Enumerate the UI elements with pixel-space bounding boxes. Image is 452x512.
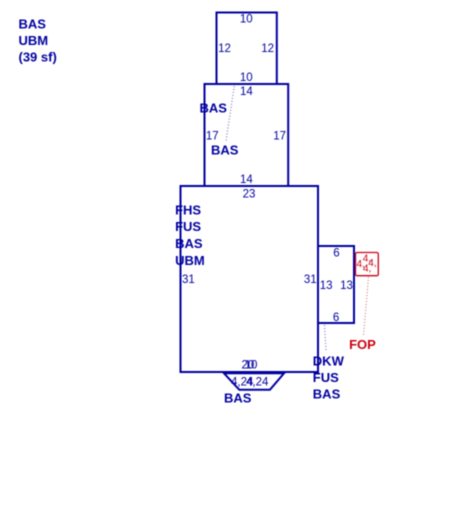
svg-text:6: 6 — [333, 248, 339, 260]
svg-text:13: 13 — [340, 280, 353, 292]
svg-text:6: 6 — [333, 312, 339, 324]
svg-text:17: 17 — [273, 130, 286, 142]
svg-text:FHS: FHS — [175, 203, 201, 218]
svg-text:FUS: FUS — [175, 219, 201, 234]
svg-text:4,24: 4,24 — [246, 377, 269, 389]
svg-text:13: 13 — [320, 280, 333, 292]
svg-text:17: 17 — [206, 130, 219, 142]
svg-text:FOP: FOP — [349, 337, 376, 352]
svg-text:10: 10 — [240, 72, 253, 84]
svg-text:BAS: BAS — [211, 143, 239, 158]
svg-text:BAS: BAS — [19, 16, 47, 31]
svg-text:4,: 4, — [363, 263, 371, 274]
svg-text:12: 12 — [218, 43, 231, 55]
svg-text:31: 31 — [182, 274, 195, 286]
svg-text:14: 14 — [240, 86, 253, 98]
svg-text:12: 12 — [261, 43, 274, 55]
svg-text:BAS: BAS — [200, 101, 228, 116]
svg-text:14: 14 — [240, 174, 253, 186]
svg-text:UBM: UBM — [19, 33, 49, 48]
svg-text:31: 31 — [304, 274, 317, 286]
svg-text:10: 10 — [245, 360, 258, 372]
svg-text:BAS: BAS — [175, 236, 203, 251]
svg-text:10: 10 — [240, 14, 253, 26]
svg-text:BAS: BAS — [224, 391, 252, 406]
svg-text:(39 sf): (39 sf) — [19, 50, 57, 65]
svg-text:UBM: UBM — [175, 253, 205, 268]
svg-text:23: 23 — [243, 188, 256, 200]
svg-text:DKW: DKW — [313, 353, 345, 368]
svg-text:BAS: BAS — [313, 387, 341, 402]
svg-text:FUS: FUS — [313, 370, 339, 385]
